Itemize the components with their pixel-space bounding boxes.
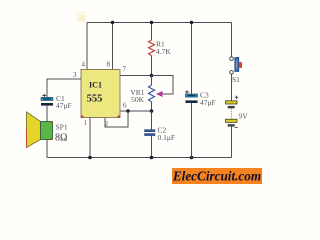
wire R1 bottom to pin7 node <box>151 56 153 76</box>
svg-text:S1: S1 <box>232 75 240 84</box>
switch S1 <box>230 57 242 74</box>
svg-text:47μF: 47μF <box>200 98 216 107</box>
wire pin6 to VR1 bottom <box>120 110 152 112</box>
svg-text:ElecCircuit.com: ElecCircuit.com <box>172 169 261 184</box>
wire VR1 bottom to C2 <box>151 111 153 130</box>
node C3/bottom-rail junction <box>190 156 194 160</box>
svg-text:1: 1 <box>84 119 88 127</box>
watermark ElecCircuit.com <box>172 168 262 184</box>
resistor R1 <box>149 40 155 56</box>
wire pin3 output to C1 <box>47 79 81 97</box>
label C1 value <box>56 94 72 110</box>
svg-text:3: 3 <box>73 71 77 79</box>
svg-text:4: 4 <box>82 61 86 69</box>
svg-text:555: 555 <box>87 94 103 105</box>
wire top rail to R1 <box>151 23 153 41</box>
label SP1 value <box>55 123 68 144</box>
wire speaker to bottom rail <box>46 140 48 158</box>
label C2 value <box>158 126 176 142</box>
label R1 value <box>156 40 171 56</box>
wire pin1 to bottom rail <box>89 118 91 158</box>
svg-text:0.1μF: 0.1μF <box>158 133 176 142</box>
svg-text:SP1: SP1 <box>56 123 68 132</box>
wire S1 to battery <box>231 74 233 101</box>
wire bottom rail ground <box>47 157 232 159</box>
svg-text:8Ω: 8Ω <box>55 133 67 144</box>
label VR1 value <box>130 88 144 104</box>
wire top rail right corner down to S1 <box>231 23 233 57</box>
potentiometer VR1 <box>149 76 163 112</box>
wire pin4 to top rail <box>86 23 88 70</box>
node R1/top-rail junction <box>150 21 153 24</box>
wire pin8 to top rail <box>112 23 114 70</box>
node C2/bottom-rail junction <box>150 156 154 160</box>
svg-text:2: 2 <box>105 120 109 128</box>
svg-text:7: 7 <box>123 65 127 73</box>
wire C1 to speaker <box>46 106 48 122</box>
svg-text:50K: 50K <box>131 95 145 104</box>
speaker SP1 <box>27 112 53 148</box>
wire pin7 to R1/VR1 junction <box>120 75 152 77</box>
node pin7/R1/VR1 junction <box>150 74 154 78</box>
battery B1 9V <box>226 101 238 128</box>
capacitor C3 <box>186 94 198 103</box>
svg-text:4.7K: 4.7K <box>156 47 171 56</box>
node C3/top-rail junction <box>190 21 193 24</box>
svg-text:IC1: IC1 <box>89 81 102 90</box>
capacitor C2 <box>145 130 156 136</box>
battery B1 polarity plus <box>235 96 238 99</box>
capacitor C1 <box>41 97 53 105</box>
wire pin2 loop <box>105 111 128 127</box>
svg-text:47μF: 47μF <box>56 101 72 110</box>
svg-text:8: 8 <box>107 61 111 69</box>
IC op U1 555 body <box>81 70 120 118</box>
paper smudge <box>76 11 86 22</box>
node pin1/bottom-rail junction <box>88 156 92 160</box>
wire top rail to C3 <box>191 23 193 95</box>
wire C2 to bottom rail <box>151 136 153 158</box>
node pin2 junction on pin6 wire <box>126 109 130 113</box>
capacitor C1 polarity plus <box>43 94 47 98</box>
wire VR1 wiper loop <box>152 76 174 95</box>
node pin8/top-rail junction <box>111 21 114 24</box>
svg-text:6: 6 <box>123 102 127 110</box>
label C3 value <box>200 91 216 108</box>
node pin6/VR1/C2 junction <box>150 109 154 113</box>
wire C3 to bottom rail <box>191 103 193 158</box>
capacitor C3 polarity plus <box>185 90 189 94</box>
wire battery to bottom rail <box>231 127 233 158</box>
wire top rail V+ <box>87 22 232 24</box>
svg-text:9V: 9V <box>239 112 249 121</box>
